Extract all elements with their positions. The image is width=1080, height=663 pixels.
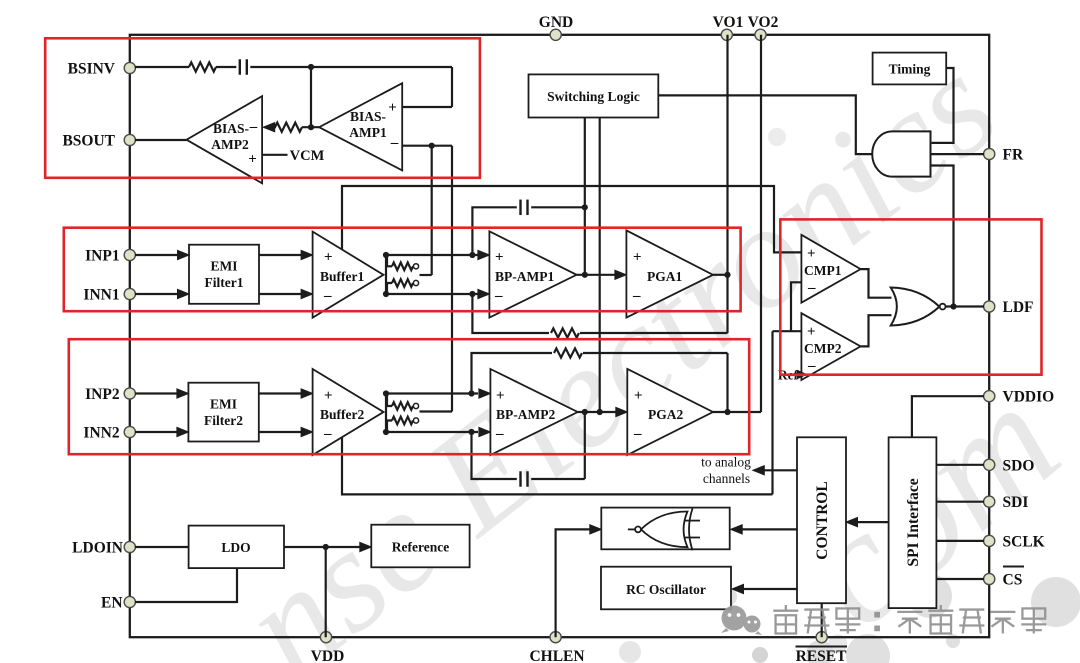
svg-text:Reference: Reference bbox=[392, 540, 449, 555]
pin LDOIN bbox=[72, 540, 135, 557]
resistor (row2 feedback) bbox=[554, 348, 582, 357]
svg-text:+: + bbox=[495, 250, 504, 266]
wire CHLEN riser bbox=[556, 529, 590, 637]
arrowhead bbox=[615, 270, 627, 279]
svg-text:VO2: VO2 bbox=[748, 14, 779, 31]
resistor (row1 feedback) bbox=[551, 328, 579, 337]
wire switching tap 1 (to row1) bbox=[584, 118, 586, 276]
pin INN2 bbox=[83, 425, 135, 442]
arrowhead bbox=[178, 250, 190, 259]
capacitor (BSINV series) bbox=[240, 59, 247, 75]
svg-text:Buffer2: Buffer2 bbox=[320, 407, 364, 422]
svg-text:LDO: LDO bbox=[221, 540, 250, 555]
wire CMP tie drop bbox=[771, 331, 773, 494]
arrowhead bbox=[301, 250, 313, 259]
svg-text:+: + bbox=[496, 388, 505, 404]
svg-text:BIAS-: BIAS- bbox=[350, 109, 386, 124]
pin VO1 bbox=[713, 14, 744, 40]
node (BSINV feedback) bbox=[308, 64, 314, 70]
wire LDOIN bbox=[135, 546, 189, 548]
label to analog channels bbox=[701, 455, 751, 487]
wire VDDIO bbox=[912, 396, 984, 437]
svg-text:Switching Logic: Switching Logic bbox=[547, 89, 640, 104]
wire (to BIAS-AMP1 + input) bbox=[402, 67, 452, 107]
svg-text:RESET: RESET bbox=[796, 648, 847, 663]
red highlight box (bias section) bbox=[45, 38, 480, 178]
pin VO2 bbox=[748, 14, 779, 40]
wire LDO out bbox=[284, 546, 361, 548]
wire bbox=[216, 66, 236, 68]
svg-text:SCLK: SCLK bbox=[1003, 533, 1045, 550]
wire RESET bbox=[821, 603, 823, 637]
svg-text:+: + bbox=[807, 246, 816, 262]
pin INP1 bbox=[85, 248, 135, 265]
node bbox=[582, 204, 588, 210]
pin INN1 bbox=[83, 287, 135, 304]
arrowhead bbox=[301, 427, 313, 436]
wire NOR to LDF bbox=[946, 305, 985, 307]
wire BP-AMP2 out bbox=[578, 411, 618, 413]
node bbox=[383, 429, 389, 435]
node bbox=[383, 291, 389, 297]
wire row1 + rail bbox=[386, 254, 479, 256]
svg-text:Filter1: Filter1 bbox=[205, 275, 244, 290]
node bbox=[308, 124, 314, 130]
svg-text:PGA1: PGA1 bbox=[647, 269, 682, 284]
svg-text:AMP1: AMP1 bbox=[349, 125, 387, 140]
label Ref bbox=[778, 368, 807, 383]
arrowhead bbox=[479, 427, 491, 436]
wire SDO bbox=[936, 464, 984, 466]
wire switching tap 2 (to row2) bbox=[599, 118, 601, 412]
arrowhead bbox=[177, 389, 189, 398]
wire row2 + rail bbox=[386, 392, 478, 394]
arrowhead bbox=[732, 584, 744, 593]
resistor (BSINV series) bbox=[189, 62, 216, 71]
node bbox=[582, 409, 588, 415]
wire CMP1- to CMP2+ tie bbox=[773, 282, 802, 331]
wire AND to LDF node bbox=[931, 166, 954, 307]
capacitor (row1 feedback) bbox=[521, 200, 528, 216]
arrowhead bbox=[178, 289, 190, 298]
svg-text:BP-AMP2: BP-AMP2 bbox=[496, 407, 555, 422]
block Switching Logic bbox=[529, 74, 659, 117]
trimmer resistor (Buffer1 a) bbox=[387, 255, 419, 270]
wire CONTROL to RC osc bbox=[743, 588, 797, 590]
svg-text:INP2: INP2 bbox=[85, 386, 120, 403]
pin GND bbox=[539, 14, 573, 40]
wire BP-AMP1 out bbox=[577, 274, 617, 276]
wire Buffer2 out vertical bbox=[385, 394, 387, 433]
svg-text:AMP2: AMP2 bbox=[211, 137, 249, 152]
svg-text:+: + bbox=[634, 388, 643, 404]
svg-text:+: + bbox=[248, 152, 257, 168]
svg-text:Buffer1: Buffer1 bbox=[320, 269, 364, 284]
node bbox=[468, 390, 474, 396]
svg-text:SDO: SDO bbox=[1003, 457, 1035, 474]
node VDD tap bbox=[323, 544, 329, 550]
wechat watermark icon bbox=[721, 606, 762, 636]
wire row2 - rail bbox=[386, 431, 478, 433]
wire INN2 bbox=[135, 431, 178, 433]
wire EMI2 out- bbox=[259, 431, 302, 433]
arrowhead bbox=[360, 542, 372, 551]
svg-text:–: – bbox=[807, 358, 816, 374]
block XNOR box bbox=[601, 508, 729, 550]
wire BSINV node bbox=[135, 66, 189, 68]
svg-text:CONTROL: CONTROL bbox=[814, 481, 831, 559]
svg-text:GND: GND bbox=[539, 14, 573, 31]
svg-text:+: + bbox=[807, 324, 816, 340]
wire BIAS-AMP1 output bbox=[302, 126, 319, 128]
block EMI Filter2 bbox=[188, 383, 258, 442]
pin SDI bbox=[984, 494, 1029, 511]
svg-text:LDF: LDF bbox=[1003, 299, 1034, 316]
capacitor (row2 feedback) bbox=[521, 471, 528, 487]
wire BSOUT to BIAS-AMP2 output bbox=[135, 139, 187, 141]
svg-text:CMP2: CMP2 bbox=[804, 341, 842, 356]
op-amp BP-AMP2 bbox=[490, 369, 577, 455]
svg-text:–: – bbox=[323, 426, 332, 442]
wire CONTROL to XNOR bbox=[742, 528, 797, 530]
wire Switching Logic to AND gate bbox=[658, 95, 873, 154]
svg-text:BP-AMP1: BP-AMP1 bbox=[495, 269, 554, 284]
wire CS bbox=[936, 578, 984, 580]
svg-text:–: – bbox=[495, 426, 504, 442]
pin BSINV bbox=[68, 61, 136, 78]
svg-text:–: – bbox=[249, 119, 258, 135]
node (cap join) bbox=[582, 272, 588, 278]
comparator CMP2 bbox=[801, 313, 860, 380]
svg-text:LDOIN: LDOIN bbox=[72, 540, 123, 557]
pin CS (active low) bbox=[984, 567, 1024, 589]
wire SDI bbox=[936, 501, 984, 503]
wire EMI1 out- bbox=[259, 293, 302, 295]
svg-text:CHLEN: CHLEN bbox=[529, 648, 584, 663]
block SPI Interface bbox=[889, 437, 937, 608]
wire EMI1 out+ bbox=[259, 254, 302, 256]
svg-text:CMP1: CMP1 bbox=[804, 263, 842, 278]
svg-text:VDDIO: VDDIO bbox=[1003, 389, 1055, 406]
node (switching tap) bbox=[597, 409, 603, 415]
op-amp BP-AMP1 bbox=[489, 231, 576, 317]
wire SPI to CONTROL bbox=[858, 521, 889, 523]
wire trim wiper to bias net bbox=[420, 274, 432, 276]
node PGA2 output bbox=[724, 409, 730, 415]
svg-text:FR: FR bbox=[1003, 147, 1024, 164]
pin RESET (active low) bbox=[796, 632, 848, 663]
svg-text:+: + bbox=[324, 250, 333, 266]
trimmer resistor (Buffer2 a) bbox=[387, 394, 419, 410]
wire bbox=[531, 206, 585, 208]
wire Timing to AND gate bbox=[932, 68, 954, 143]
wire (bias - net down to Buffer2 trim) bbox=[451, 146, 453, 412]
arrowhead into BIAS-AMP2 - bbox=[263, 123, 276, 132]
wire BIAS-AMP1 - input bbox=[402, 145, 452, 147]
svg-text:INN1: INN1 bbox=[83, 287, 119, 304]
svg-text:channels: channels bbox=[703, 471, 750, 486]
comparator CMP1 bbox=[801, 235, 860, 303]
wire row2 resistor run bbox=[472, 353, 728, 412]
arrowhead bbox=[753, 466, 765, 475]
op-amp BIAS-AMP1 bbox=[319, 83, 402, 170]
chip boundary bbox=[130, 35, 989, 637]
label VCM bbox=[290, 148, 325, 164]
wire row1 feedback resistor run bbox=[472, 294, 727, 333]
op-amp Buffer1 bbox=[313, 232, 384, 318]
block Timing bbox=[873, 53, 947, 85]
wire AND to FR bbox=[931, 153, 985, 155]
op-amp Buffer2 bbox=[313, 369, 384, 455]
op-amp PGA2 bbox=[627, 369, 713, 455]
wire CMP1 out bbox=[861, 269, 892, 298]
pin VDD bbox=[311, 632, 345, 663]
svg-text:VDD: VDD bbox=[311, 648, 345, 663]
svg-text:–: – bbox=[494, 288, 503, 304]
svg-text:BSOUT: BSOUT bbox=[62, 133, 115, 150]
wire to analog channels bbox=[764, 469, 797, 471]
wire (node down to bias out) bbox=[310, 67, 312, 127]
arrowhead bbox=[301, 289, 313, 298]
block Reference bbox=[371, 525, 469, 568]
svg-text:–: – bbox=[633, 426, 642, 442]
red highlight box (channel 1) bbox=[64, 228, 741, 312]
svg-text:+: + bbox=[633, 250, 642, 266]
arrowhead bbox=[590, 525, 602, 534]
resistor (bias feedback) bbox=[275, 123, 302, 132]
wire EMI2 out+ bbox=[259, 392, 302, 394]
block CONTROL bbox=[797, 437, 846, 603]
wire Buffer2 tap bbox=[342, 437, 773, 494]
arrowhead bbox=[616, 407, 628, 416]
wire Buffer1 out vertical bbox=[385, 255, 387, 294]
arrowhead bbox=[846, 518, 858, 527]
wire (bias - net down to Buffer1 trim) bbox=[431, 146, 433, 275]
svg-text:Filter2: Filter2 bbox=[204, 413, 243, 428]
arrowhead bbox=[301, 389, 313, 398]
wire INP1 bbox=[135, 254, 179, 256]
XNOR gate (mirrored) bbox=[628, 509, 700, 551]
svg-text:BSINV: BSINV bbox=[68, 61, 116, 78]
pin FR bbox=[984, 147, 1024, 164]
node bbox=[469, 291, 475, 297]
arrowhead bbox=[479, 389, 491, 398]
trimmer resistor (Buffer1 b) bbox=[387, 279, 419, 294]
svg-text:–: – bbox=[390, 135, 399, 151]
wire bbox=[250, 66, 452, 68]
svg-text:INN2: INN2 bbox=[83, 425, 119, 442]
svg-text:EMI: EMI bbox=[211, 259, 238, 274]
svg-text:VO1: VO1 bbox=[713, 14, 744, 31]
node PGA1 output bbox=[724, 272, 730, 278]
wire row2 cap feedback bbox=[472, 432, 517, 479]
svg-text:Timing: Timing bbox=[889, 62, 931, 77]
wire CMP2 out bbox=[861, 315, 892, 346]
svg-text:to analog: to analog bbox=[701, 455, 751, 470]
node bbox=[383, 252, 389, 258]
wire row1 cap feedback bbox=[472, 207, 516, 255]
pin SCLK bbox=[984, 533, 1045, 550]
svg-text:SDI: SDI bbox=[1003, 494, 1029, 511]
wire VDD vertical bbox=[325, 547, 327, 637]
wire bbox=[531, 412, 585, 479]
pin BSOUT bbox=[62, 133, 135, 150]
svg-text:PGA2: PGA2 bbox=[648, 407, 683, 422]
wire INP2 bbox=[135, 392, 178, 394]
op-amp BIAS-AMP2 bbox=[187, 96, 263, 183]
arrowhead bbox=[478, 250, 490, 259]
arrowhead bbox=[731, 525, 743, 534]
svg-text:EMI: EMI bbox=[210, 397, 237, 412]
wire VO2 vertical bbox=[760, 35, 762, 412]
pin EN bbox=[101, 595, 135, 612]
pin INP2 bbox=[85, 386, 135, 403]
pin CHLEN bbox=[529, 632, 584, 663]
svg-text:–: – bbox=[807, 280, 816, 296]
trimmer resistor (Buffer2 b) bbox=[387, 417, 419, 432]
node bbox=[383, 390, 389, 396]
svg-text:CS: CS bbox=[1003, 572, 1023, 589]
wire row1 - rail bbox=[386, 293, 479, 295]
svg-text:–: – bbox=[323, 288, 332, 304]
svg-text:VCM: VCM bbox=[290, 148, 325, 164]
svg-text:+: + bbox=[388, 100, 397, 116]
svg-text:EN: EN bbox=[101, 595, 123, 612]
svg-text:SPI Interface: SPI Interface bbox=[905, 478, 922, 566]
wire EN bbox=[135, 568, 237, 602]
wire VO1 vertical bbox=[726, 35, 728, 333]
arrowhead bbox=[478, 289, 490, 298]
pin VDDIO bbox=[984, 389, 1055, 406]
wire Buffer1 tap bbox=[342, 186, 801, 252]
svg-text:INP1: INP1 bbox=[85, 248, 119, 265]
wire PGA1 out bbox=[713, 274, 728, 276]
wire SCLK bbox=[936, 540, 984, 542]
node LDF junction bbox=[950, 303, 956, 309]
svg-text:+: + bbox=[324, 388, 333, 404]
AND gate (mirrored) bbox=[872, 131, 930, 176]
wechat watermark text bbox=[773, 605, 1046, 634]
wire trim wiper to bias net bbox=[420, 410, 453, 412]
svg-text:–: – bbox=[632, 288, 641, 304]
svg-text:BIAS-: BIAS- bbox=[213, 121, 249, 136]
block RC Oscillator bbox=[601, 567, 731, 610]
node bbox=[468, 429, 474, 435]
pin SDO bbox=[984, 457, 1035, 474]
wire VCM input bbox=[262, 154, 287, 156]
red highlight box (channel 2) bbox=[69, 339, 749, 454]
node bbox=[469, 252, 475, 258]
wire PGA2 out bbox=[713, 411, 761, 413]
op-amp PGA1 bbox=[626, 230, 713, 317]
NOR gate bbox=[891, 288, 946, 326]
svg-text:RC Oscillator: RC Oscillator bbox=[626, 582, 706, 597]
node (bias - net) bbox=[429, 143, 435, 149]
block EMI Filter1 bbox=[189, 245, 259, 304]
red highlight box (comparators) bbox=[780, 219, 1041, 374]
pin LDF bbox=[984, 299, 1034, 316]
block LDO bbox=[189, 526, 284, 569]
wire INN1 bbox=[135, 293, 179, 295]
arrowhead bbox=[177, 427, 189, 436]
